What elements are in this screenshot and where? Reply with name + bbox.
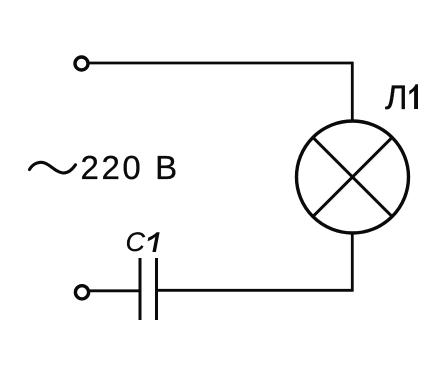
AC tilde symbol [30,162,76,173]
label C1: digit 1 (drawn italic, no foot serif) [148,232,160,252]
wire top horizontal [90,62,354,65]
label Л1: digit 1 (drawn, no foot serif) [409,84,418,109]
terminal X2 (bottom input) [75,286,88,299]
terminal X1 (top input) [75,57,88,70]
wire capacitor to terminal [90,289,141,292]
lamp Л1 circle [297,121,409,233]
capacitor C1 left plate [139,258,142,320]
lamp Л1 cross line NW-SE [313,137,392,216]
svg-text:220 В: 220 В [81,149,180,186]
capacitor C1 right plate [155,258,158,320]
lamp Л1 cross line NE-SW [313,137,392,216]
svg-text:Л: Л [385,79,408,117]
svg-text:C: C [126,227,146,257]
wire bottom horizontal [157,289,353,292]
wire lamp bottom vertical [351,232,354,292]
wire top vertical to lamp [351,62,354,122]
